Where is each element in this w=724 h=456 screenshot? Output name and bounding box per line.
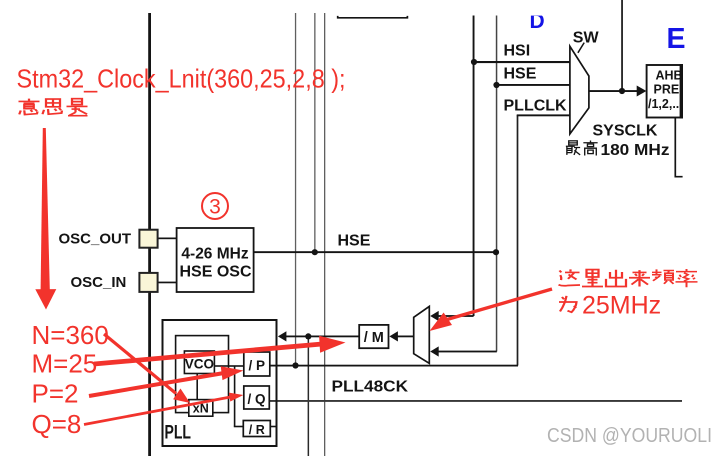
svg-text:CSDN @YOURUOLI: CSDN @YOURUOLI (547, 425, 712, 447)
svg-text:PLLCLK: PLLCLK (504, 98, 568, 115)
red pointer N to xN (104, 334, 176, 394)
divider box /Q (244, 386, 269, 409)
svg-text:4-26 MHz: 4-26 MHz (181, 246, 248, 263)
mux U2 (PLL source mux) (414, 306, 430, 363)
svg-text:HSE: HSE (504, 66, 537, 83)
wire: gray rail A (295, 13, 296, 366)
red pointer P to /P (89, 373, 224, 396)
wire: /R input stub (234, 426, 244, 428)
wire: gray rail B (314, 13, 315, 252)
svg-text:AHB: AHB (656, 69, 683, 83)
svg-text:P=2: P=2 (32, 379, 79, 409)
arrowhead into PLL box (278, 331, 287, 341)
red note: 意思是 (19, 99, 88, 116)
red note: 为25MHz (559, 292, 661, 320)
wire: PLL48CK long horizontal (270, 400, 683, 402)
junction dot HSI rail (471, 59, 477, 65)
xN box (189, 400, 213, 417)
svg-text:OSC_OUT: OSC_OUT (59, 231, 132, 248)
wire: rail D from /M output down (308, 336, 310, 456)
VCO box (184, 351, 214, 374)
divider box /R (243, 421, 270, 437)
arrowhead bottom mux bottom input (430, 346, 439, 356)
junction dot rail A on PLLCLK line (292, 362, 298, 368)
wire: HSE vertical rail (496, 16, 498, 352)
wire: PLLCLK horizontal top (517, 114, 570, 116)
wire: divider input bus vertical (234, 366, 236, 427)
wire: /R output stub (270, 426, 277, 428)
wire: HSE horizontal top (496, 84, 570, 86)
HSE OSC box (177, 228, 254, 292)
svg-text:3: 3 (209, 196, 221, 219)
svg-text:SYSCLK: SYSCLK (593, 123, 658, 140)
junction dot rail D on /M line (305, 333, 311, 339)
wire: PLLCLK rail (top mux input down to /P output line) (517, 115, 519, 365)
svg-text:HSE OSC: HSE OSC (180, 264, 252, 281)
red pointer M to /M (94, 344, 322, 364)
svg-text:25MHz: 25MHz (582, 292, 661, 320)
svg-text:HSE: HSE (338, 233, 371, 250)
wire: HSE mid horizontal from HSE OSC (254, 251, 498, 253)
wire: VCO to xN vertical (196, 374, 198, 401)
junction dot HSE rail on HSE line (493, 249, 499, 255)
svg-text:/ P: / P (249, 358, 266, 373)
wire: mux to /M (397, 336, 414, 338)
mux U1 (SW system clock mux) (570, 46, 589, 134)
divider box /M (359, 325, 388, 348)
red vertical arrow (41, 128, 50, 290)
wire: bottom mux top input (HSI) (438, 315, 474, 317)
wire: SYSCLK vertical going to top edge (621, 0, 623, 91)
wire: PLLCLK bottom horizontal from /P (270, 365, 519, 367)
red note: 这里出来频率 (559, 269, 698, 287)
svg-text:Q=8: Q=8 (32, 409, 82, 439)
wire: /M output to PLL (286, 336, 360, 338)
svg-text:HSI: HSI (504, 43, 531, 60)
wire: gray rail C (324, 13, 325, 456)
wire: bottom mux bottom input (HSE) (438, 351, 497, 353)
arrowhead into AHB PRESC box (637, 86, 647, 97)
svg-text:Stm32_Clock_Lnit(360,25,2,8 );: Stm32_Clock_Lnit(360,25,2,8 ); (17, 64, 346, 94)
wire: OSC_OUT stub (157, 238, 177, 240)
svg-text:/ R: / R (249, 423, 265, 437)
svg-text:SW: SW (573, 30, 600, 47)
red pointer Q to /Q (84, 397, 231, 425)
junction dot rail B on HSE line (312, 249, 318, 255)
SW select tick (578, 43, 584, 53)
svg-text:N=360: N=360 (32, 320, 109, 350)
clipped box bottom at top edge (338, 16, 408, 18)
wire: SYSCLK horizontal (589, 90, 638, 92)
svg-text:OSC_IN: OSC_IN (71, 274, 127, 291)
svg-text:E: E (667, 23, 686, 55)
red circled 3 (202, 193, 228, 219)
junction dot SYSCLK (619, 88, 625, 94)
wire: OSC_IN stub (157, 282, 177, 284)
arrowhead into /M box (389, 331, 398, 341)
wire: HSI horizontal (473, 61, 570, 63)
svg-text:180 MHz: 180 MHz (601, 142, 670, 159)
wire: below AHB box with foot (675, 118, 682, 177)
wire: HSI vertical rail (473, 16, 475, 317)
label 最高 (hand-drawn, black) (566, 141, 598, 156)
svg-text:PLL: PLL (165, 423, 192, 444)
PLL inner box (176, 336, 229, 413)
wire: thick main vertical line (148, 13, 151, 456)
pin OSC_OUT square (139, 230, 157, 248)
PLL outer box (163, 320, 277, 446)
pin OSC_IN square (139, 273, 157, 292)
divider box /P (244, 352, 270, 376)
svg-text:M=25: M=25 (32, 349, 98, 379)
svg-text:VCO: VCO (185, 357, 214, 372)
svg-text:/ M: / M (364, 330, 384, 346)
AHB PRESC box (clipped at diagram edge) (647, 64, 701, 119)
red pointer to PLL source mux (447, 289, 552, 320)
section letter D (blue, clipped at top) (520, 8, 550, 33)
junction dot HSE rail top (493, 82, 499, 88)
svg-text:/ Q: / Q (247, 392, 265, 407)
arrowhead bottom mux top input (430, 311, 439, 321)
svg-text:PLL48CK: PLL48CK (332, 379, 409, 396)
wire: VCO out to /P (214, 365, 244, 367)
